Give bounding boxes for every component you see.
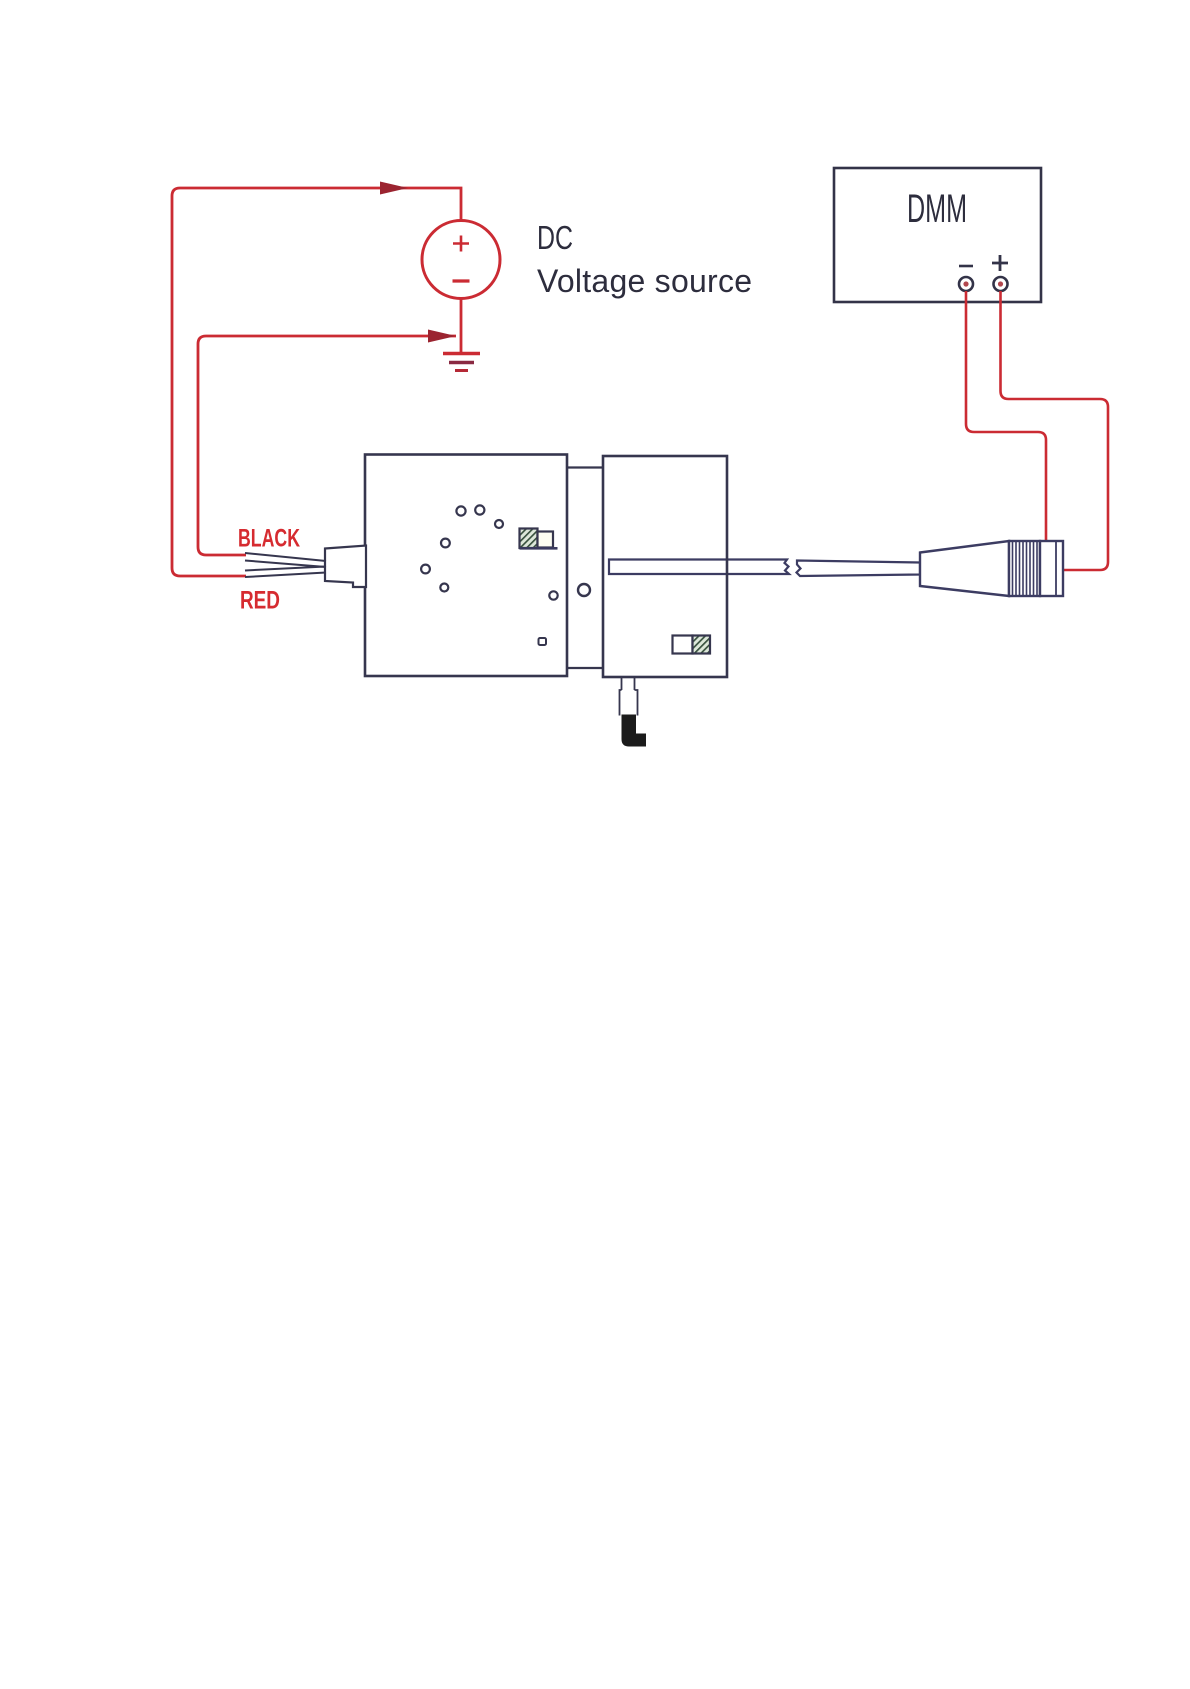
DC voltage source V1: [422, 221, 500, 299]
connector end cap: [1040, 541, 1063, 596]
strip hole: [578, 584, 590, 596]
screw hole 6: [440, 584, 448, 592]
screw hole 1: [456, 506, 465, 515]
wire from source minus to ground: [460, 299, 463, 354]
wire red ground loop to BLACK lead: [198, 336, 456, 555]
small square hole: [539, 638, 547, 645]
screw hole 4: [441, 539, 450, 548]
probe rod segment 1: [609, 560, 789, 575]
wire DMM minus to connector top: [966, 291, 1046, 541]
connector ribbed section: [1009, 541, 1040, 596]
coupling strip bottom line: [567, 667, 603, 669]
svg-text:RED: RED: [240, 587, 280, 615]
probe rod segment 2: [797, 561, 921, 577]
minus terminal jack: [959, 277, 973, 291]
plus terminal label: [992, 255, 1008, 271]
DMM box: [834, 168, 1041, 302]
hatched detail in right box: [673, 636, 693, 654]
black hook foot: [622, 715, 647, 747]
wire red V+ loop from DC source plus terminal to RED lead: [172, 188, 461, 576]
svg-text:BLACK: BLACK: [238, 525, 300, 553]
svg-text:DC: DC: [537, 219, 573, 256]
screw hole 3: [495, 520, 503, 528]
lead wires into plug: [245, 553, 326, 561]
cable plug into main box: [325, 546, 366, 588]
arrowhead on ground wire: [428, 330, 456, 343]
screw hole 5: [421, 565, 430, 574]
sensor body main box: [365, 455, 567, 677]
minus sign inside source: [453, 279, 470, 282]
hatched detail in main box: [520, 529, 538, 549]
connector cone: [920, 541, 1009, 596]
screw hole 2: [475, 505, 484, 514]
coupling strip top line: [567, 466, 603, 468]
minus terminal label: [959, 265, 973, 268]
svg-text:DMM: DMM: [907, 187, 967, 231]
screw hole 7: [549, 591, 557, 599]
arrowhead on top wire: [380, 182, 408, 195]
svg-text:Voltage source: Voltage source: [537, 263, 752, 299]
stem below right box: [622, 678, 635, 691]
plus sign inside source: [453, 236, 469, 252]
plus terminal jack: [994, 277, 1008, 291]
wire DMM plus to connector end: [1001, 291, 1109, 570]
ground symbol: [443, 352, 480, 355]
sensor right box: [603, 456, 727, 677]
